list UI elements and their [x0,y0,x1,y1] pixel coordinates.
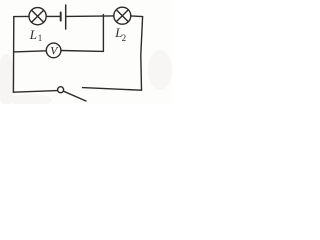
wire: lamp L1 to battery [46,15,60,17]
lamp L2 [114,7,131,24]
battery B1 long plate (positive) [65,5,67,29]
svg-text:L: L [29,27,37,42]
battery B1 short plate (negative) [60,12,62,20]
lamp L1 [29,8,46,25]
wire: voltmeter branch right segment [61,50,103,53]
wire: top rail, left corner to lamp L1 [14,15,29,17]
wire: right rail [141,17,143,91]
wire: left rail [12,17,14,93]
switch S1 blade (open) [63,91,86,101]
paper smudge [148,50,172,90]
wire: bottom rail right segment [83,88,142,91]
wire: lamp L2 to top-right corner [131,15,143,18]
wire: voltmeter branch left segment (from left-rail junction) [14,51,47,52]
switch S1 pivot [58,87,64,93]
wire: voltmeter riser up to top rail [102,15,104,52]
paper smudge [8,94,52,106]
svg-text:2: 2 [122,33,127,43]
svg-text:1: 1 [38,33,43,43]
voltmeter V1 [46,43,61,58]
wire: bottom rail left segment [13,91,57,93]
wire: battery to lamp L2 (with junction of voltmeter riser) [67,15,114,18]
paper smudge [0,54,15,106]
